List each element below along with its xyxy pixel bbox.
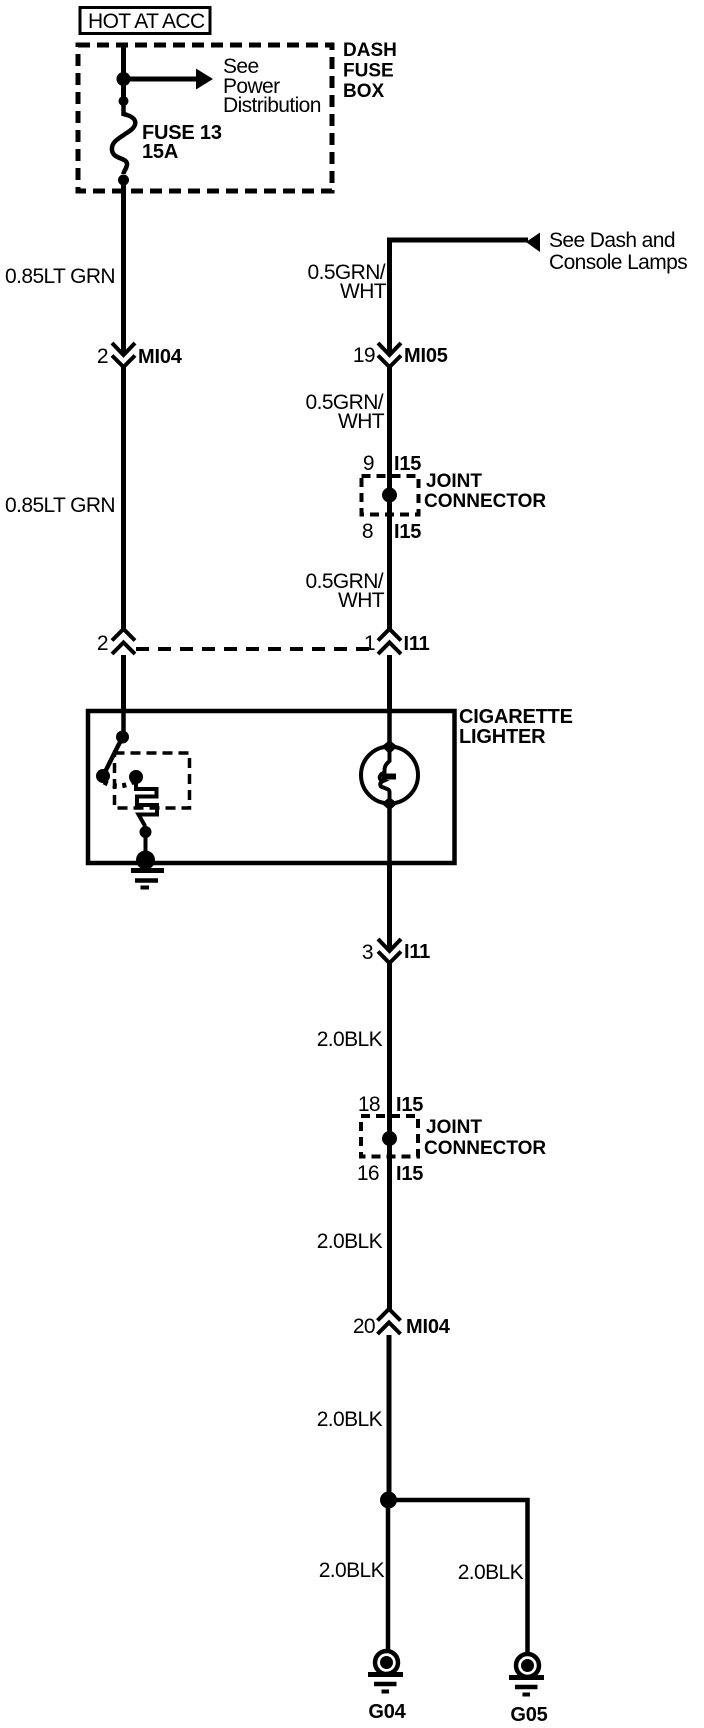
- wire: I11 to joint connector: [387, 963, 392, 1116]
- node: joint connector junction dot: [382, 488, 397, 503]
- svg-text:I15: I15: [396, 1094, 423, 1116]
- label JOINT CONNECTOR (upper): [424, 471, 546, 512]
- svg-text:CONNECTOR: CONNECTOR: [424, 1138, 546, 1159]
- svg-text:JOINT: JOINT: [426, 1117, 482, 1138]
- wire into box (left): [121, 711, 126, 737]
- connector MI04 pin 2 (in-line, down chevrons): [97, 343, 183, 368]
- wire through joint connector: [387, 1116, 392, 1180]
- svg-text:G04: G04: [368, 1701, 406, 1723]
- svg-text:HOT AT ACC: HOT AT ACC: [88, 10, 205, 33]
- svg-text:I11: I11: [404, 941, 430, 963]
- svg-text:JOINT: JOINT: [426, 471, 482, 492]
- node: element contact: [129, 770, 143, 784]
- label 0.5GRN/WHT (mid): [306, 391, 385, 433]
- wire: fuse to connector MI04: [121, 180, 126, 353]
- wire through joint connector: [387, 476, 392, 539]
- svg-text:I11: I11: [404, 633, 430, 655]
- svg-text:BOX: BOX: [343, 81, 385, 102]
- lighter heating element circle: [361, 747, 418, 804]
- label pin 9 I15: [363, 452, 421, 475]
- svg-text:2.0BLK: 2.0BLK: [317, 1408, 383, 1431]
- svg-text:DASH: DASH: [343, 40, 397, 61]
- label pin 18 I15: [358, 1093, 423, 1116]
- svg-text:1: 1: [364, 632, 375, 655]
- svg-text:8: 8: [362, 520, 373, 543]
- svg-text:20: 20: [353, 1315, 375, 1338]
- cigarette lighter box: [88, 711, 455, 863]
- svg-text:18: 18: [358, 1093, 380, 1116]
- label 0.5GRN/WHT (top): [308, 261, 387, 303]
- wire: feed to dash and console lamps: [390, 240, 529, 353]
- arrow to See Dash and Console Lamps: [526, 233, 540, 253]
- wire into box (right, through element): [387, 711, 392, 752]
- connector MI04 pin 20 (up chevrons): [353, 1309, 451, 1338]
- heater element zigzag: [136, 777, 157, 832]
- wire: joint connector to MI04: [387, 1180, 392, 1309]
- label HOT AT ACC: [80, 8, 210, 34]
- svg-text:FUSE: FUSE: [343, 61, 394, 82]
- svg-text:0.85LT GRN: 0.85LT GRN: [5, 265, 115, 288]
- svg-text:2: 2: [97, 632, 108, 655]
- svg-text:MI04: MI04: [406, 1316, 451, 1338]
- wire: MI04 to connector pin 2: [121, 367, 126, 629]
- wire: element to box bottom: [387, 803, 392, 863]
- wire: arrow to See Power Distribution: [124, 69, 214, 90]
- node: element bottom terminal: [140, 826, 152, 838]
- ground G04: [368, 1651, 407, 1723]
- wire: joint connector to I11: [387, 539, 392, 629]
- node: ground branch junction: [380, 1492, 397, 1509]
- joint connector (upper, dashed box): [362, 476, 419, 515]
- element top contact diamond: [382, 740, 398, 754]
- wire: box to connector I11 pin 3: [387, 863, 392, 949]
- connector I11 pin 1 (up chevrons): [364, 629, 430, 655]
- label DASH FUSE BOX: [343, 40, 397, 102]
- svg-text:CONNECTOR: CONNECTOR: [424, 491, 546, 512]
- svg-text:2.0BLK: 2.0BLK: [458, 1561, 524, 1584]
- label See Power Distribution: [223, 55, 321, 117]
- connector I11 pin 3 (down chevrons): [362, 939, 430, 964]
- svg-text:2: 2: [97, 345, 108, 368]
- label CIGARETTE LIGHTER: [459, 706, 573, 748]
- svg-text:I15: I15: [394, 521, 421, 543]
- dashed element enclosure: [115, 753, 190, 808]
- node: fuse top terminal: [119, 96, 129, 106]
- ground (lighter case): [131, 871, 164, 888]
- svg-text:MI05: MI05: [404, 345, 448, 367]
- node: switch contact left: [96, 769, 110, 783]
- label JOINT CONNECTOR (lower): [424, 1117, 546, 1159]
- label 0.5GRN/WHT (lower): [306, 570, 385, 612]
- element bottom contact diamond: [382, 797, 398, 811]
- label pin 16 I15: [357, 1162, 423, 1185]
- svg-text:19: 19: [353, 344, 375, 367]
- wire: junction to G04: [386, 1500, 391, 1651]
- node: switch pivot top: [116, 731, 129, 744]
- connector pin 2 (up chevrons at cigarette lighter): [97, 629, 135, 655]
- dotted link to element contact: [104, 782, 133, 786]
- wire: fuse box top to junction: [121, 45, 126, 101]
- node: case ground junction: [136, 851, 155, 870]
- svg-text:Distribution: Distribution: [223, 94, 321, 117]
- svg-text:2.0BLK: 2.0BLK: [319, 1559, 385, 1582]
- wire: connector to lighter box (left): [121, 655, 126, 712]
- svg-text:I15: I15: [396, 1163, 423, 1185]
- svg-text:CIGARETTE: CIGARETTE: [459, 706, 573, 728]
- wire: MI05 to joint connector: [387, 367, 392, 476]
- ground G05: [509, 1654, 548, 1726]
- label FUSE 13 15A: [142, 122, 222, 163]
- svg-text:WHT: WHT: [338, 410, 385, 433]
- node: junction at fuse feed: [117, 72, 131, 86]
- svg-text:MI04: MI04: [138, 346, 183, 368]
- svg-text:2.0BLK: 2.0BLK: [317, 1028, 383, 1051]
- label See Dash and Console Lamps: [549, 229, 687, 274]
- wire: element to case ground: [144, 832, 148, 860]
- joint connector (lower, dashed box): [361, 1116, 418, 1157]
- svg-text:WHT: WHT: [340, 280, 387, 303]
- svg-text:0.85LT GRN: 0.85LT GRN: [5, 494, 115, 517]
- wire: MI04 to ground junction: [387, 1335, 392, 1500]
- svg-text:LIGHTER: LIGHTER: [459, 726, 546, 748]
- svg-text:Console Lamps: Console Lamps: [549, 251, 687, 274]
- connector MI05 pin 19 (down chevrons): [353, 343, 448, 367]
- svg-text:WHT: WHT: [338, 589, 385, 612]
- svg-text:2.0BLK: 2.0BLK: [317, 1230, 383, 1253]
- wire: connector to lighter box (right): [387, 655, 392, 712]
- wire: branch to G05: [389, 1500, 528, 1653]
- node: fuse bottom terminal: [118, 175, 129, 186]
- element coil squiggle: [380, 751, 396, 804]
- svg-text:9: 9: [363, 452, 374, 475]
- fuse F13 element (squiggle): [112, 101, 135, 174]
- dash fuse box (dashed enclosure): [78, 45, 332, 191]
- svg-text:16: 16: [357, 1162, 379, 1185]
- label pin 8 I15: [362, 520, 421, 543]
- svg-text:G05: G05: [510, 1704, 547, 1726]
- node: joint connector junction dot: [382, 1131, 397, 1146]
- svg-text:See Dash and: See Dash and: [549, 229, 675, 252]
- svg-text:I15: I15: [394, 453, 421, 475]
- svg-text:3: 3: [362, 941, 373, 964]
- svg-text:15A: 15A: [142, 141, 178, 163]
- wire: dashed connector link line: [136, 647, 374, 651]
- switch blade: [103, 737, 123, 776]
